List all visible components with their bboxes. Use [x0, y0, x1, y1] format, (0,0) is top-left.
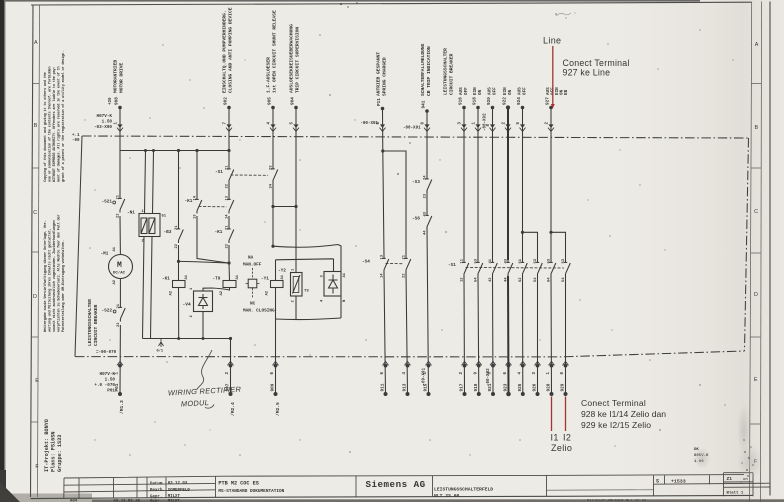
wire 927-928 — [550, 109, 553, 394]
coil T9 — [213, 274, 240, 295]
svg-text:51: 51 — [162, 215, 167, 219]
switch S21 — [102, 194, 125, 218]
junction lower bus / wire 907 — [229, 337, 232, 340]
svg-text:54: 54 — [534, 277, 538, 282]
svg-text:03.12.03: 03.12.03 — [168, 482, 188, 486]
cubicle top edge — [82, 136, 749, 138]
svg-text:MODUL: MODUL — [181, 398, 210, 408]
svg-text:13: 13 — [381, 254, 385, 259]
cubicle name (rotated): LEISTUNGSSCHALTER CIRCUIT BREAKER — [87, 299, 99, 346]
wire K1 aux branch — [197, 151, 229, 264]
right letter column — [750, 2, 762, 502]
svg-text:22: 22 — [117, 213, 121, 218]
cubicle ref labels — [72, 134, 117, 355]
annotation texts — [543, 36, 666, 454]
svg-text:A2: A2 — [265, 290, 269, 295]
contact K1 aux — [185, 195, 202, 219]
svg-text:NC: NC — [250, 302, 256, 307]
wire Y2 bottom — [295, 296, 297, 319]
left row ticks — [31, 84, 39, 423]
svg-text:ON: ON — [508, 89, 513, 95]
svg-text:22: 22 — [117, 322, 121, 327]
wire V1 right to bottom loop — [340, 296, 342, 318]
svg-text:14: 14 — [194, 195, 198, 200]
junction bus A / N1 pole 2 — [152, 149, 155, 152]
svg-text:-K1: -K1 — [162, 277, 170, 282]
svg-text:Plans: PSi6SN: Plans: PSi6SN — [51, 432, 57, 472]
label H07V-K wire type top — [94, 114, 112, 130]
svg-text:-S3: -S3 — [412, 180, 420, 185]
y-symbol 0/1 below lower bus — [159, 339, 164, 348]
switch S22 — [102, 303, 126, 327]
svg-text:P11: P11 — [377, 98, 382, 106]
svg-text:MAN.OFF: MAN.OFF — [243, 263, 262, 268]
svg-text:TRIP CIRCUIT SUPERVISION: TRIP CIRCUIT SUPERVISION — [295, 27, 301, 93]
svg-text:wertung und Mitteilung ihres I: wertung und Mitteilung ihres Inhalts nic… — [48, 228, 53, 332]
svg-text:44: 44 — [505, 277, 509, 282]
node 908 top terminal — [109, 97, 123, 132]
svg-text:Copying of this document and g: Copying of this document and giving it t… — [43, 72, 48, 182]
svg-text:use or communication of the co: use or communication of the contents the… — [48, 67, 53, 182]
bottom-right ref text DK 805V-K — [694, 448, 709, 464]
svg-text:PTB M2 COC ES: PTB M2 COC ES — [218, 481, 258, 487]
node P11 top terminal — [360, 98, 385, 132]
bottom loop — [276, 318, 342, 320]
svg-text:grant of a patent or the regis: grant of a patent or the registration of… — [61, 51, 66, 182]
node 927 top terminal — [548, 106, 554, 132]
svg-text:ANTRIEB GESPANNT: ANTRIEB GESPANNT — [375, 52, 381, 96]
svg-text:SPRING CHARGED: SPRING CHARGED — [382, 57, 388, 96]
mech link K1 — [199, 206, 227, 208]
terminal 913 bottom — [405, 361, 411, 396]
svg-text:-V4: -V4 — [183, 302, 192, 308]
rect loop top Y1 — [276, 259, 334, 272]
red wire I1 — [551, 397, 553, 432]
svg-text:915: 915 — [424, 383, 429, 391]
svg-text:919: 919 — [474, 383, 479, 391]
svg-text:A2: A2 — [169, 290, 173, 295]
junction bus A / K1 aux branch — [195, 149, 198, 152]
bus A horizontal — [120, 150, 230, 152]
contact K1b (on 902) — [226, 195, 234, 219]
node 941 top terminal — [403, 100, 430, 131]
svg-text:922: 922 — [503, 97, 508, 105]
svg-text:AUSLOESEKREISUEBERWACHUNG: AUSLOESEKREISUEBERWACHUNG — [288, 24, 294, 93]
svg-text:41: 41 — [489, 258, 493, 263]
wavy wire V1 top — [273, 245, 341, 272]
bottom terminal pin numbers — [116, 367, 566, 386]
svg-text:A1: A1 — [236, 274, 240, 279]
contact S1 (on 902) — [215, 165, 234, 189]
terminal 921 bottom — [490, 361, 496, 396]
svg-text:EB: EB — [564, 89, 569, 95]
svg-text:OFF: OFF — [464, 87, 469, 95]
wire 909 drop — [275, 319, 277, 394]
svg-text:CB TRIP INDICATION: CB TRIP INDICATION — [426, 46, 432, 96]
bottom wire numbers — [115, 383, 566, 391]
motor M1 — [101, 246, 133, 284]
svg-text:D: D — [33, 294, 37, 300]
svg-text:53: 53 — [562, 258, 566, 263]
svg-text:soweit nicht ausdruecklich zug: soweit nicht ausdruecklich zugestanden. … — [52, 220, 57, 332]
svg-text:Blatt 1: Blatt 1 — [727, 491, 744, 496]
junction 905 / V1 wavy wire — [271, 245, 274, 248]
label AUSLOESEKREISUEBERWACHUNG TRIP CIRCUIT SUPERVISION — [288, 24, 300, 93]
wire 922-923 thick — [507, 109, 510, 394]
svg-text:/M2.5: /M2.5 — [275, 402, 281, 416]
svg-text:-03-X90: -03-X90 — [94, 125, 112, 130]
node 918 top terminal — [475, 106, 481, 132]
svg-text:902: 902 — [224, 97, 229, 105]
branch 927 to 929 — [551, 232, 566, 394]
terminal 926 bottom — [535, 361, 541, 396]
cubicle bottom edge — [75, 351, 745, 357]
node 902 top terminal — [223, 97, 232, 132]
svg-text:SOMERFELD: SOMERFELD — [168, 489, 191, 493]
node 924 top terminal — [520, 106, 526, 132]
svg-text:21: 21 — [403, 254, 407, 259]
red wire I2 — [565, 397, 567, 432]
svg-text:M: M — [117, 261, 122, 270]
svg-text:OFF: OFF — [523, 87, 528, 95]
junction 927 branch — [549, 231, 552, 234]
svg-text:926: 926 — [533, 383, 538, 391]
svg-text:916: 916 — [459, 97, 464, 105]
terminal 909 bottom — [273, 361, 279, 396]
node 905 top terminal — [267, 97, 276, 132]
wire T9 to V4 — [203, 288, 230, 292]
svg-text:1.F-AUSLOESER: 1.F-AUSLOESER — [265, 57, 271, 93]
svg-text:-N1: -N1 — [127, 211, 135, 216]
branch 924 to 926 — [523, 232, 538, 394]
svg-text:=-00-070: =-00-070 — [96, 351, 117, 355]
svg-text:43: 43 — [424, 211, 428, 216]
svg-text:-S4: -S4 — [362, 260, 370, 265]
svg-text:929: 929 — [561, 383, 566, 391]
svg-text:23: 23 — [424, 193, 428, 198]
junction lower bus / K1 coil — [177, 337, 180, 340]
contact K1c (on 902 lower) — [215, 225, 234, 249]
terminal 929 bottom — [563, 361, 569, 396]
svg-text:MAN. CLOSING: MAN. CLOSING — [243, 309, 275, 314]
svg-text:925: 925 — [518, 383, 523, 391]
node 916 top terminal — [461, 106, 467, 132]
svg-text:OFF: OFF — [493, 87, 498, 95]
terminal 915 bottom — [426, 361, 432, 396]
svg-text:917: 917 — [460, 383, 465, 391]
svg-text:DC/AC: DC/AC — [113, 271, 126, 276]
bottom edge fragments — [70, 498, 180, 502]
svg-text:A1: A1 — [343, 272, 347, 277]
rectifier module V1 — [321, 272, 347, 303]
terminal 925 bottom — [520, 361, 526, 396]
wire motor to S22 — [119, 279, 121, 306]
svg-text:A1: A1 — [281, 274, 285, 279]
svg-text:A1: A1 — [113, 246, 117, 251]
svg-text:927: 927 — [546, 97, 551, 105]
svg-text:MS-STANDARD DOKUMENTATION: MS-STANDARD DOKUMENTATION — [218, 489, 284, 494]
red wire to terminal 927 — [552, 46, 554, 107]
svg-text:921: 921 — [488, 383, 493, 391]
svg-text:CIRCUIT BREAKER: CIRCUIT BREAKER — [449, 53, 455, 95]
wire 916-917 — [463, 109, 466, 394]
svg-text:924: 924 — [517, 97, 522, 105]
svg-text:I1: I1 — [551, 433, 559, 443]
terminal P01 bottom — [117, 361, 123, 396]
margin copyright text block (rotated) — [43, 51, 66, 182]
svg-text:23: 23 — [270, 165, 274, 170]
faint pencil squiggle top — [556, 13, 571, 16]
svg-text:LEISTUNGSSCHALTER: LEISTUNGSSCHALTER — [87, 299, 93, 346]
svg-text:913: 913 — [403, 383, 408, 391]
link 905-904 — [273, 206, 296, 208]
svg-text:1st OPEN CIRCUIT SHUNT RELEASE: 1st OPEN CIRCUIT SHUNT RELEASE — [272, 10, 278, 93]
svg-text:-B3: -B3 — [164, 230, 172, 235]
left row letters — [33, 40, 39, 470]
margin project block (rotated) — [44, 419, 63, 472]
cubicle left edge — [75, 136, 82, 357]
wire 924-925 — [522, 109, 524, 394]
label SCHALTERFALLMELDUNG CB TRIP INDICATION — [420, 43, 432, 96]
node 922 top terminal — [505, 105, 511, 131]
wire S21 to motor — [119, 216, 121, 255]
svg-text:0/1: 0/1 — [157, 349, 163, 354]
svg-text:CLOSING AND ANTI PUMPING DEVIC: CLOSING AND ANTI PUMPING DEVICE — [228, 7, 234, 93]
contact S4b — [403, 254, 411, 278]
svg-text:44: 44 — [424, 230, 428, 235]
svg-text:928 ke I1/14 Zelio dan: 928 ke I1/14 Zelio dan — [581, 409, 666, 419]
svg-text:54: 54 — [562, 277, 566, 282]
svg-text:+.1: +.1 — [72, 134, 80, 138]
svg-text:24: 24 — [270, 183, 274, 188]
contact S4 (on P11) — [362, 254, 389, 278]
svg-text:SCHALTERFALLMELDUNG: SCHALTERFALLMELDUNG — [420, 43, 426, 96]
junction node 902 / V4 branch — [227, 261, 230, 264]
svg-text:A: A — [755, 42, 759, 48]
svg-text:Weitergabe sowie Vervielfaelti: Weitergabe sowie Vervielfaeltigung diese… — [43, 220, 48, 332]
svg-text:42: 42 — [489, 277, 493, 282]
svg-text:-S22: -S22 — [102, 309, 113, 314]
svg-text:-00-X92: -00-X92 — [487, 368, 491, 386]
svg-text:11: 11 — [461, 258, 465, 263]
svg-text:LEISTUNGSSCHALTER: LEISTUNGSSCHALTER — [442, 48, 448, 95]
svg-text:Line: Line — [543, 36, 561, 46]
junction 905 / link wire — [271, 205, 274, 208]
svg-text:WITHOUT EXPRESS AUTHORITY. Off: WITHOUT EXPRESS AUTHORITY. Offenders are… — [52, 67, 57, 182]
svg-text:-09-X91: -09-X91 — [422, 367, 426, 385]
svg-text:-S1: -S1 — [448, 263, 456, 268]
svg-text:EINSCHALTQ.UND PUMPVERHINDERG.: EINSCHALTQ.UND PUMPVERHINDERG. — [221, 10, 227, 93]
svg-text:CIRCUIT BREAKER: CIRCUIT BREAKER — [93, 304, 99, 346]
contact S6 (on 941 lower) — [412, 211, 432, 235]
wire 905 vertical — [272, 109, 274, 246]
svg-text:C: C — [754, 209, 758, 215]
wire 918-919 — [477, 109, 480, 394]
svg-text:H07V-K: H07V-K — [100, 372, 116, 377]
svg-text:IT-Projekt: BONYO: IT-Projekt: BONYO — [44, 419, 50, 472]
terminal 907 bottom — [228, 361, 234, 396]
svg-text:12: 12 — [461, 277, 465, 282]
junction lower bus / V4 — [202, 337, 205, 340]
svg-text:918: 918 — [473, 97, 478, 105]
AUS/OFF EIN/ON column captions — [459, 87, 569, 95]
svg-text:22: 22 — [226, 243, 230, 248]
svg-text:A2: A2 — [220, 290, 224, 295]
manual button NA/NC — [243, 256, 275, 314]
svg-text:H07V-K: H07V-K — [97, 114, 113, 119]
svg-text:P01: P01 — [107, 389, 115, 394]
svg-text:53: 53 — [534, 258, 538, 263]
wire 920-921 — [492, 109, 495, 394]
svg-text:62: 62 — [519, 277, 523, 282]
svg-text:61: 61 — [519, 258, 523, 263]
svg-text:D: D — [754, 292, 758, 298]
svg-text:Siemens AG: Siemens AG — [366, 479, 426, 490]
node 920 top terminal — [490, 106, 496, 132]
label EINSCHALTQ. CLOSING AND ANTI PUMPING DEVICE — [221, 7, 233, 93]
svg-text:B: B — [34, 123, 38, 129]
svg-text:928: 928 — [547, 383, 552, 391]
lower bus 338 — [143, 338, 231, 340]
svg-text:-00-X92: -00-X92 — [483, 113, 487, 131]
junction bus A / wire 902 — [227, 149, 230, 152]
label MOTORANTRIEB / MOTOR DRIVE — [112, 60, 124, 93]
wire 907 drop — [230, 339, 232, 395]
svg-text:P01: P01 — [115, 383, 120, 391]
node 904 top terminal — [290, 97, 299, 132]
svg-text:Zelio: Zelio — [551, 443, 572, 453]
margin text block 2 (rotated) — [43, 215, 66, 332]
branch P11 to second contact — [383, 151, 408, 394]
svg-text:13: 13 — [194, 214, 198, 219]
wire N1 pole 1 — [143, 151, 146, 339]
label 1.F-AUSLOESER 1st OPEN CIRCUIT SHUNT RELEASE — [265, 10, 277, 93]
mech link S4 — [386, 263, 404, 265]
svg-text:Patenterteilung oder GM-Eintra: Patenterteilung oder GM-Eintragung vorbe… — [61, 240, 66, 332]
mech link S1 — [231, 174, 269, 176]
svg-text:-00: -00 — [72, 139, 80, 143]
svg-text:A1: A1 — [185, 274, 189, 279]
overload relay N1 — [139, 214, 160, 237]
svg-text:/M2.4: /M2.4 — [230, 402, 236, 416]
wire N1 pole 2 — [151, 151, 154, 339]
svg-text:21: 21 — [117, 303, 121, 308]
svg-text:T3: T3 — [304, 290, 309, 294]
svg-text:ON: ON — [478, 89, 483, 95]
cubicle boundary dash-dot box — [75, 136, 749, 357]
svg-text:NA: NA — [248, 256, 254, 261]
contact S3 (on 941) — [412, 175, 432, 199]
wire 941 vertical — [427, 113, 429, 395]
svg-text:21: 21 — [226, 225, 230, 230]
handwritten note WIRING RECTIFIER MODUL — [168, 385, 242, 409]
svg-text:-S1: -S1 — [215, 170, 223, 175]
junction bus A / N1 pole 1 — [144, 149, 147, 152]
svg-text:E: E — [754, 377, 758, 383]
svg-text:+1533: +1533 — [671, 478, 686, 484]
svg-text:+.0 -070: +.0 -070 — [94, 383, 115, 388]
label LEISTUNGSSCHALTER CIRCUIT BREAKER (top group) — [442, 48, 454, 95]
svg-text:911: 911 — [381, 383, 386, 391]
svg-text:MOTORANTRIEB: MOTORANTRIEB — [112, 60, 118, 93]
svg-text:-Y2: -Y2 — [278, 269, 286, 274]
svg-text:21: 21 — [175, 225, 179, 230]
svg-text:MOTOR DRIVE: MOTOR DRIVE — [119, 62, 125, 93]
svg-text:Gruppe: 1S33: Gruppe: 1S33 — [57, 435, 63, 472]
svg-text:/M1.3: /M1.3 — [119, 400, 125, 414]
svg-text:22: 22 — [175, 243, 179, 248]
svg-text:-S21: -S21 — [102, 200, 113, 205]
svg-text:C: C — [33, 210, 37, 216]
svg-text:verpflichten zu Schadenersatz.: verpflichten zu Schadenersatz. Alle Rech… — [57, 215, 62, 332]
wire Y1 drop — [275, 260, 277, 319]
svg-text:904: 904 — [291, 97, 296, 105]
terminal 917 bottom — [462, 361, 468, 396]
svg-text:Gepr: Gepr — [150, 498, 160, 502]
coil Y1 — [261, 274, 285, 295]
svg-text:-00-X91: -00-X91 — [403, 127, 421, 131]
svg-text:54: 54 — [475, 277, 479, 282]
svg-text:1.50: 1.50 — [105, 378, 116, 383]
svg-text:21: 21 — [117, 194, 121, 199]
svg-text:Datum: Datum — [150, 482, 163, 486]
terminal 923 bottom — [506, 361, 512, 396]
terminal 928 bottom — [549, 361, 555, 396]
svg-text:B: B — [754, 125, 758, 131]
label H07V-K wire type bottom — [94, 372, 115, 394]
svg-text:905: 905 — [268, 97, 273, 105]
scan edge bar left — [0, 0, 4, 502]
svg-text:LEISTUNGSSCHALTERFELD: LEISTUNGSSCHALTERFELD — [434, 487, 493, 493]
svg-text:Bearb.: Bearb. — [150, 488, 165, 493]
svg-text:43: 43 — [505, 258, 509, 263]
svg-text:927 ke Line: 927 ke Line — [563, 68, 611, 78]
svg-text:53: 53 — [475, 258, 479, 263]
svg-text:-M1: -M1 — [101, 252, 109, 257]
svg-text:S: S — [656, 479, 659, 485]
terminal 919 bottom — [476, 361, 482, 396]
wire 904 vertical — [295, 109, 297, 273]
title block — [64, 473, 770, 499]
svg-text:I2: I2 — [563, 433, 571, 443]
svg-text:908: 908 — [115, 97, 120, 105]
svg-text:Conect Terminal: Conect Terminal — [563, 58, 630, 68]
svg-text:24: 24 — [424, 175, 428, 180]
terminal 911 bottom — [383, 361, 389, 396]
release coil Y2 — [278, 268, 309, 303]
svg-text:+20: +20 — [109, 97, 113, 105]
svg-text:E: E — [35, 378, 39, 384]
wire 902 vertical — [228, 109, 231, 281]
junction 904 / link wire — [294, 205, 297, 208]
svg-text:63: 63 — [548, 258, 552, 263]
svg-text:941: 941 — [422, 100, 427, 108]
svg-text:A: A — [34, 40, 38, 46]
svg-text:-00-X91: -00-X91 — [360, 122, 378, 126]
smudge blobs right of title — [737, 445, 763, 479]
wire 902 branch to V4 — [179, 261, 230, 263]
junction S3 branch / V4 wire — [177, 260, 180, 263]
cubicle right edge — [745, 138, 749, 351]
svg-text:64: 64 — [548, 277, 552, 282]
svg-text:22: 22 — [226, 183, 230, 188]
left letter column line — [38, 5, 40, 497]
contact S3 (on K1 coil branch) — [164, 225, 184, 249]
rectifier module V4 — [183, 287, 213, 318]
junction 924 branch — [521, 231, 524, 234]
coil K1 — [162, 274, 189, 295]
junction bus A / S3 branch — [177, 149, 180, 152]
